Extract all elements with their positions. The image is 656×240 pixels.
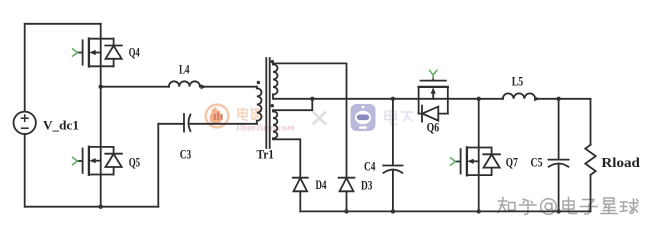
diode D3	[339, 178, 355, 212]
svg-text:Q5: Q5	[129, 155, 141, 170]
node junction D3 / rail	[344, 209, 348, 213]
wire Q7 drain vertical	[478, 99, 480, 148]
transistor Q4	[73, 39, 122, 67]
glyph @	[541, 199, 557, 215]
watermark faint blue text	[385, 110, 413, 125]
transformer Tr1	[257, 58, 278, 148]
glyph 乎	[520, 199, 537, 215]
diode D4	[293, 178, 308, 212]
watermark zhihu text	[498, 198, 638, 215]
wire Q5 source to bottom rail	[100, 175, 102, 207]
watermark orange ring logo	[206, 105, 229, 128]
inductor L4	[169, 81, 207, 89]
svg-text:Q6: Q6	[427, 120, 440, 135]
capacitor C5	[548, 160, 568, 167]
wire L4 to transformer primary	[206, 86, 257, 88]
wire bottom-right rail	[300, 210, 590, 212]
glyph 知	[498, 198, 515, 213]
svg-text:C4: C4	[364, 159, 376, 174]
glyph 星	[601, 198, 617, 214]
svg-text:D3: D3	[361, 178, 373, 193]
glyph 子	[581, 200, 598, 215]
transistor Q6	[419, 70, 448, 121]
wire Q4 drain stub	[100, 24, 102, 39]
node junction Q7 source / rail	[477, 209, 481, 213]
node junction center tap	[310, 97, 314, 101]
watermark blue badge logo	[351, 104, 376, 131]
wire node to L4	[101, 86, 169, 88]
glyph 球	[621, 199, 639, 214]
node junction Q4/Q5/L4	[99, 85, 103, 89]
wire Q4 source to node	[100, 66, 102, 86]
wire left vertical bottom	[24, 134, 26, 207]
wire center tap: top winding bottom to output	[273, 95, 419, 99]
node junction C4 bottom	[391, 209, 395, 213]
watermark orange chinese text	[238, 108, 261, 121]
capacitor C3	[184, 114, 190, 132]
svg-text:L4: L4	[179, 62, 190, 77]
secondary top dot	[271, 60, 274, 63]
secondary bottom dot	[271, 104, 274, 107]
svg-text:V_dc1: V_dc1	[43, 118, 79, 133]
wire C5 vertical bottom	[558, 164, 560, 212]
wire to C3 left plate	[158, 123, 184, 125]
wire top rail	[25, 23, 101, 25]
wire bottom winding bottom lead to D4	[273, 138, 300, 177]
secondary bottom winding	[273, 111, 277, 138]
svg-text:DianYuan.com: DianYuan.com	[235, 124, 295, 134]
wire C4 vertical bottom	[392, 170, 394, 212]
wire node to L5	[479, 98, 503, 100]
wire Q7 source to rail	[478, 175, 480, 211]
svg-text:C3: C3	[180, 147, 192, 162]
svg-text:Q7: Q7	[506, 155, 518, 170]
node junction Q7/L5	[477, 97, 481, 101]
transistor Q5	[73, 147, 122, 175]
core line right	[269, 58, 271, 148]
core line left	[265, 58, 267, 148]
primary dot	[257, 81, 260, 84]
wire C5 node to Rload corner	[559, 98, 591, 100]
wire bottom-left rail	[25, 206, 159, 208]
wire Q5 drain stub	[100, 87, 102, 147]
primary winding	[257, 87, 262, 124]
resistor Rload	[585, 99, 595, 212]
watermark gray x	[314, 113, 326, 124]
wire C3 branch vertical	[157, 124, 159, 207]
node junction Q5 source / bottom rail	[99, 205, 103, 209]
wire C3 to primary bottom	[190, 123, 257, 125]
wire C4 vertical top	[392, 99, 394, 166]
node junction C5 bottom	[556, 209, 560, 213]
node junction C5 top	[556, 97, 560, 101]
svg-text:D4: D4	[316, 177, 327, 192]
wire C5 vertical top	[558, 99, 560, 160]
svg-text:L5: L5	[512, 74, 524, 89]
svg-text:C5: C5	[531, 155, 543, 170]
wire L5 to C5 node	[539, 98, 559, 100]
wire secondary top lead to D3	[273, 63, 347, 177]
voltage source V_dc1	[14, 112, 36, 134]
svg-text:Q4: Q4	[129, 45, 140, 60]
inductor L5	[503, 93, 541, 101]
svg-text:Rload: Rload	[601, 155, 640, 170]
capacitor C4	[383, 166, 402, 173]
node junction C4 top	[391, 97, 395, 101]
wire bottom winding top lead	[273, 99, 312, 112]
glyph 电	[563, 198, 577, 214]
secondary top winding	[273, 64, 278, 94]
wire Q6 to node L5/Q7	[448, 98, 479, 100]
transistor Q7	[451, 147, 500, 175]
wire left vertical top	[24, 24, 26, 112]
svg-text:Tr1: Tr1	[257, 147, 275, 162]
